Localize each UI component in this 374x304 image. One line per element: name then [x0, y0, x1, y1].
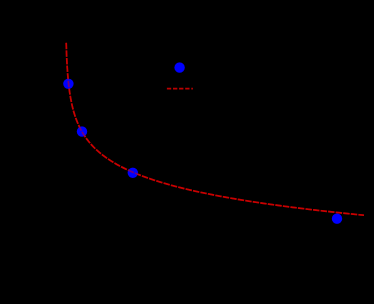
data point 3 — [128, 168, 138, 178]
fit curve top layer (translucent red dashed, makes purple over markers) — [66, 43, 364, 215]
data point 4 — [332, 214, 342, 224]
legend dashed line sample — [167, 88, 193, 90]
fit curve lower layer (red dashed) — [66, 43, 364, 215]
data point 2 — [77, 126, 87, 136]
legend marker dot — [174, 62, 184, 72]
data point 1 — [63, 79, 73, 89]
